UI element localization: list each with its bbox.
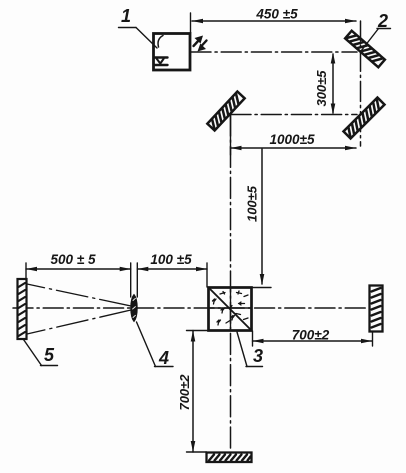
laser source box 1 bbox=[154, 34, 191, 71]
svg-text:100±5: 100±5 bbox=[245, 185, 260, 222]
svg-text:300±5: 300±5 bbox=[314, 70, 329, 107]
beam: horizontal axis screen-lens-cube-right mirror bbox=[13, 307, 369, 309]
dimension 100±5 (vertical) bbox=[245, 149, 272, 288]
svg-text:5: 5 bbox=[44, 345, 55, 365]
dimension 700±2 (horizontal) bbox=[253, 328, 373, 347]
dimension 300±5 bbox=[314, 53, 335, 115]
label 4 bbox=[137, 322, 174, 368]
beam: between middle mirrors bbox=[231, 114, 357, 116]
label 2 bbox=[361, 11, 391, 51]
vertical beam axis: mirror to cube to bottom mirror bbox=[230, 115, 232, 452]
svg-text:500 ± 5: 500 ± 5 bbox=[51, 252, 96, 267]
mirror (right of cube) bbox=[370, 286, 383, 332]
lens 4 bbox=[131, 295, 137, 322]
svg-text:4: 4 bbox=[158, 348, 169, 368]
svg-text:1: 1 bbox=[121, 6, 131, 26]
svg-text:700±2: 700±2 bbox=[292, 328, 330, 343]
mirror 2 (top right) bbox=[345, 31, 385, 67]
dimension 700±2 (vertical) bbox=[177, 331, 208, 453]
vertical axis through mirrors at right bbox=[360, 21, 362, 146]
svg-text:450 ±5: 450 ±5 bbox=[255, 7, 298, 22]
screen 5 bbox=[18, 279, 27, 339]
dimension 100±5 (lens to cube) bbox=[131, 252, 207, 297]
dimension 450±5 bbox=[191, 7, 357, 34]
ray lens to screen top bbox=[27, 284, 131, 306]
mirror (bottom) bbox=[207, 453, 252, 463]
svg-text:700±2: 700±2 bbox=[177, 374, 192, 411]
label 1 bbox=[119, 6, 158, 48]
beam: laser to mirror 2 bbox=[191, 51, 357, 53]
svg-text:3: 3 bbox=[253, 346, 263, 366]
mirror (left middle) bbox=[207, 92, 244, 131]
ray lens to screen bottom bbox=[27, 310, 131, 334]
laser emission symbol (two arrows) bbox=[194, 36, 207, 52]
svg-text:1000±5: 1000±5 bbox=[270, 132, 315, 147]
label 3 bbox=[237, 332, 263, 367]
dimension 1000±5 bbox=[231, 115, 357, 155]
svg-text:100 ±5: 100 ±5 bbox=[150, 252, 192, 267]
mirror (right, second) bbox=[343, 97, 384, 138]
beamsplitter cube 3 bbox=[209, 288, 252, 331]
dimension 500±5 bbox=[26, 252, 131, 280]
label 5 bbox=[24, 340, 58, 366]
